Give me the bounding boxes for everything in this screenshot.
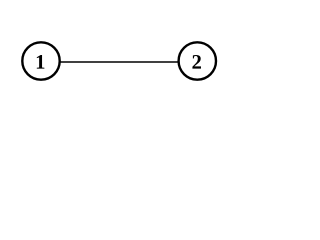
node 2 label "2" (serif bold glyph outline) bbox=[192, 55, 201, 69]
node 1 label "1" (serif bold glyph outline) bbox=[37, 55, 45, 69]
edge 1-2 bbox=[41, 61, 197, 63]
node 1 circle bbox=[22, 42, 59, 79]
node 2 circle bbox=[179, 42, 216, 79]
graph: two nodes connected by one edge bbox=[0, 0, 272, 133]
